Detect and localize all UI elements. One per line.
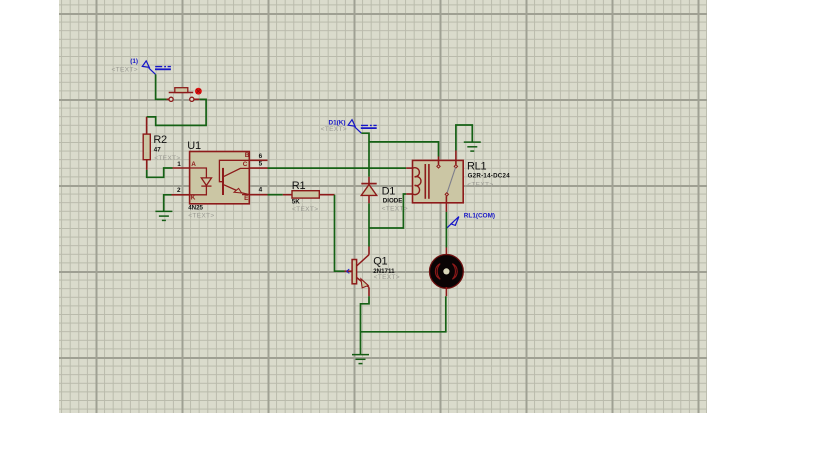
svg-text:R2: R2 (153, 134, 167, 146)
svg-text:K: K (191, 195, 196, 202)
svg-text:<TEXT>: <TEXT> (321, 126, 347, 133)
U1 pin 5 stub (249, 167, 267, 169)
svg-text:5K: 5K (292, 198, 300, 205)
U1 internal LED (190, 168, 212, 195)
resistor R1 left stub (283, 194, 292, 196)
wire: D1(K) node to relay contact pin (branch) (369, 142, 439, 157)
svg-text:Q1: Q1 (373, 256, 387, 268)
relay contact pin diamond (right) (454, 165, 457, 168)
svg-text:4N25: 4N25 (188, 204, 203, 211)
button SW: actuator bar (169, 88, 194, 93)
svg-text:<TEXT>: <TEXT> (112, 66, 138, 73)
wire: U1 pin4 to R1 left (268, 194, 283, 196)
wire: U1 pin5 to relay coil top (268, 167, 407, 169)
wire: U1 pin 2 to ground (164, 195, 172, 211)
resistor R1 (292, 191, 319, 198)
ground (emitter) (352, 355, 369, 364)
relay coil top stub (406, 167, 412, 169)
terminal flag D1(K) (348, 120, 377, 134)
transistor Q1 collector stub (368, 247, 370, 255)
svg-text:2: 2 (177, 187, 181, 194)
relay RL1 body (413, 160, 464, 202)
diode D1 (361, 184, 376, 196)
diode D1 cathode stub (368, 177, 370, 184)
Q1 base pin stub (345, 270, 353, 272)
relay contact pin (right, to ground) (455, 151, 457, 165)
wire: R2 bottom to U1 pin A (jog) (147, 168, 173, 177)
svg-text:<TEXT>: <TEXT> (374, 274, 400, 281)
wire: button right to R2 top (jog) (147, 99, 207, 125)
svg-text:E: E (244, 195, 249, 202)
relay coil bottom stub (406, 193, 413, 195)
U1 pin 6 stub (unconnected) (249, 159, 267, 161)
wire: Q1 emitter to ground (jog) (361, 296, 370, 354)
svg-text:(1): (1) (130, 58, 138, 65)
svg-text:4: 4 (259, 187, 263, 194)
Q1 base pin marker (347, 269, 350, 273)
svg-text:G2R-14-DC24: G2R-14-DC24 (468, 172, 511, 179)
diode D1 anode stub (368, 195, 370, 203)
transistor Q1 emitter stub (368, 287, 370, 296)
motor (RL1 load) (430, 255, 464, 289)
ground (top right) (464, 142, 481, 151)
U1 pin 1 stub (173, 167, 190, 169)
resistor R2 top pin stub (146, 117, 148, 134)
svg-text:RL1(COM): RL1(COM) (464, 213, 495, 220)
relay COM pin diamond (445, 193, 448, 196)
optocoupler U1 body (190, 152, 250, 204)
svg-text:<TEXT>: <TEXT> (292, 206, 318, 213)
button SW: left terminal (169, 97, 173, 101)
motor top stub (445, 248, 447, 257)
wire: flag(1) to button left (156, 74, 167, 99)
wire: R1 right to Q1 base (335, 195, 345, 272)
U1 pin 4 stub (249, 194, 267, 196)
wire label arrow RL1(COM) (447, 217, 459, 229)
button SW: right pin stub (194, 98, 199, 100)
wire: D1 anode down to junction and Q1 collector (368, 203, 370, 246)
svg-text:47: 47 (154, 147, 161, 154)
svg-text:B: B (245, 152, 250, 159)
motor bottom stub (445, 287, 447, 296)
button SW: left pin stub (167, 98, 169, 100)
wire: relay COM to motor top (445, 212, 447, 248)
U1 pin 2 stub (172, 194, 190, 196)
svg-text:6: 6 (259, 153, 263, 160)
resistor R1 right stub (319, 194, 334, 196)
svg-text:R1: R1 (292, 180, 306, 192)
relay RL1 coil (413, 164, 429, 199)
net label (1) (130, 58, 138, 65)
svg-text:<TEXT>: <TEXT> (188, 213, 214, 220)
svg-text:RL1: RL1 (467, 161, 486, 173)
button SW: right terminal (190, 97, 194, 101)
resistor R2 (143, 134, 150, 160)
wire: flag D1(K) down to D1 cathode (361, 133, 369, 177)
wire: relay right contact to top-right ground (456, 125, 472, 151)
terminal flag (1) (142, 61, 171, 75)
relay armature (447, 168, 455, 193)
ground (U1 pin2) (155, 211, 172, 220)
svg-text:5: 5 (259, 161, 263, 168)
relay contact pin diamond (left) (437, 165, 440, 168)
wire: junction to relay coil bottom (369, 194, 406, 228)
transistor Q1 (352, 255, 369, 288)
wire: ground rail to motor bottom (361, 296, 446, 332)
svg-text:D1: D1 (382, 185, 396, 197)
svg-text:<TEXT>: <TEXT> (467, 181, 493, 188)
svg-text:C: C (243, 161, 248, 168)
relay COM pin stub (445, 196, 447, 212)
relay contact pin (left, from D1(K) net) (438, 157, 440, 165)
svg-text:A: A (191, 161, 196, 168)
svg-text:1: 1 (177, 161, 181, 168)
resistor R2 bottom pin stub (146, 160, 148, 170)
svg-text:DIODE: DIODE (383, 197, 403, 204)
U1 internal phototransistor (219, 160, 249, 195)
svg-text:U1: U1 (187, 140, 201, 152)
button SW: red actuator dot (195, 88, 202, 95)
grid sheet (59, 0, 707, 413)
